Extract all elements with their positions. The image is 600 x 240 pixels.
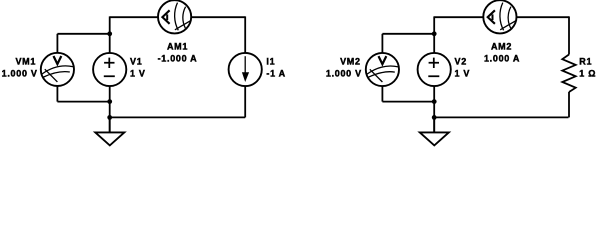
current source I1	[229, 53, 262, 86]
node junction ground right	[432, 115, 437, 120]
svg-text:AM2: AM2	[491, 42, 512, 52]
svg-text:1.000 V: 1.000 V	[2, 69, 38, 79]
node junction bottom right	[432, 99, 437, 104]
wire V1 top vertical	[109, 16, 111, 53]
wire I1 bottom vertical	[244, 86, 246, 118]
wire VM1 top stub	[56, 34, 58, 54]
svg-text:R1: R1	[579, 57, 592, 67]
svg-text:1 V: 1 V	[130, 69, 146, 79]
voltage source V2	[418, 53, 451, 86]
ammeter AM1	[158, 0, 191, 33]
wire top rail right circuit	[434, 16, 569, 18]
svg-text:-1.000 A: -1.000 A	[158, 54, 198, 64]
wire VM2-V2 connector	[382, 33, 434, 35]
node junction V1 top	[107, 31, 112, 36]
svg-text:1.000 A: 1.000 A	[484, 54, 520, 64]
svg-text:V2: V2	[455, 57, 467, 67]
svg-text:AM1: AM1	[167, 42, 188, 52]
wire top rail left circuit	[110, 16, 246, 18]
svg-text:VM1: VM1	[15, 57, 36, 67]
wire I1 top vertical	[244, 16, 246, 53]
svg-text:1.000 V: 1.000 V	[326, 69, 362, 79]
node junction bottom left	[107, 99, 112, 104]
wire VM2 top stub	[381, 34, 383, 54]
ground left circuit	[95, 117, 124, 145]
svg-text:1 Ω: 1 Ω	[579, 69, 596, 79]
ammeter AM2	[483, 0, 516, 33]
wire R1 return horizontal	[434, 116, 568, 118]
wire R1 top vertical	[568, 16, 570, 54]
svg-text:V1: V1	[130, 57, 142, 67]
wire VM1-V1 connector	[57, 33, 109, 35]
wire V1 bottom vertical	[109, 86, 111, 133]
svg-text:I1: I1	[266, 57, 275, 67]
voltage source V1	[93, 53, 126, 86]
svg-text:-1 A: -1 A	[266, 69, 285, 79]
node junction V2 top	[432, 31, 437, 36]
wire VM1-ground horizontal	[57, 101, 109, 103]
svg-text:1 V: 1 V	[455, 69, 471, 79]
wire V2 top vertical	[433, 16, 435, 53]
voltmeter VM1	[41, 53, 74, 86]
wire VM2-ground horizontal	[382, 101, 434, 103]
wire VM2 bottom stub	[381, 86, 383, 102]
wire R1 bottom vertical	[568, 92, 570, 117]
wire VM1 bottom stub	[56, 86, 58, 102]
voltmeter VM2	[366, 53, 399, 86]
wire I1 return horizontal	[110, 116, 246, 118]
resistor R1	[562, 55, 575, 93]
wire V2 bottom vertical	[433, 86, 435, 133]
ground right circuit	[420, 117, 449, 145]
svg-text:VM2: VM2	[340, 57, 361, 67]
node junction ground left	[107, 115, 112, 120]
